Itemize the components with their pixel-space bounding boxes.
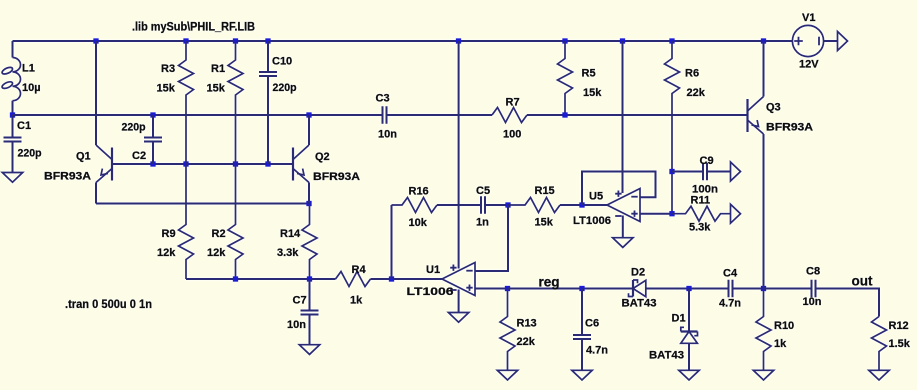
- wire D1 cathode up to reg net: [688, 289, 690, 332]
- wire Q1 collector: [95, 41, 97, 145]
- svg-text:4.7n: 4.7n: [719, 298, 741, 310]
- svg-text:U5: U5: [589, 191, 603, 203]
- wire D1 anode to ground: [688, 343, 690, 370]
- resistor R16: [392, 198, 438, 213]
- junction C2 top on y115 net: [150, 112, 155, 117]
- svg-text:Q1: Q1: [76, 151, 91, 163]
- wire U1 V+ supply from top rail: [458, 41, 460, 269]
- svg-text:out: out: [852, 274, 873, 289]
- wire emitter rail y203: [96, 203, 309, 205]
- junction R1/R2 on base rail: [233, 161, 238, 166]
- svg-text:C1: C1: [17, 120, 31, 132]
- ground under C1: [2, 173, 22, 183]
- wire U5 V- to ground: [622, 216, 624, 238]
- svg-text:V1: V1: [802, 12, 815, 24]
- wire R4 to U1 output node: [371, 278, 443, 280]
- svg-text:C4: C4: [723, 268, 738, 280]
- ground under R10: [753, 370, 773, 380]
- transistor Q2 BFR93A: [293, 145, 309, 183]
- wire y115 net R7 to Q3 base: [527, 114, 748, 116]
- capacitor C10: [259, 41, 277, 164]
- svg-text:15k: 15k: [157, 83, 176, 95]
- junction Q2 collector on y115 net: [306, 112, 311, 117]
- resistor R2: [228, 164, 243, 279]
- svg-text:R14: R14: [280, 228, 301, 240]
- wire U1 inverting input to feedback: [475, 205, 508, 271]
- svg-text:BFR93A: BFR93A: [313, 171, 360, 183]
- wire C8 to out corner: [816, 289, 880, 317]
- svg-text:R5: R5: [582, 68, 596, 80]
- resistor R14: [302, 204, 317, 280]
- resistor R1: [228, 41, 243, 164]
- capacitor C3: [383, 106, 387, 124]
- wire U1 non-inverting input: [475, 288, 508, 290]
- junction Q3 collector top rail: [761, 38, 766, 43]
- wire U5 non-inverting input: [640, 213, 672, 215]
- resistor R10: [756, 289, 771, 371]
- svg-text:reg: reg: [539, 275, 560, 290]
- resistor R7: [492, 108, 527, 123]
- resistor R15: [508, 198, 560, 213]
- wire main horizontal net y115 left of C3: [13, 114, 383, 116]
- ground under R13: [497, 370, 517, 380]
- resistor R13: [500, 289, 515, 371]
- svg-text:L1: L1: [22, 63, 35, 75]
- diode D1 BAT43: [681, 327, 698, 343]
- resistor R4: [336, 272, 371, 287]
- svg-text:LT1006: LT1006: [407, 286, 454, 298]
- svg-text:12k: 12k: [207, 247, 226, 259]
- ground under C7: [299, 345, 319, 355]
- svg-text:R15: R15: [535, 185, 555, 197]
- capacitor C6: [573, 289, 591, 340]
- resistor R11: [672, 206, 731, 221]
- ground under U5: [613, 238, 633, 248]
- svg-text:U1: U1: [426, 264, 440, 276]
- svg-text:12V: 12V: [799, 59, 819, 71]
- junction U5 V+ top rail: [620, 38, 625, 43]
- svg-text:Q3: Q3: [766, 102, 781, 114]
- svg-text:C9: C9: [700, 155, 714, 167]
- junction R5 bottom on y115 net: [562, 112, 567, 117]
- svg-text:R6: R6: [685, 68, 699, 80]
- wire C6 to ground: [581, 340, 583, 371]
- wire U5 feedback loop: [582, 172, 656, 206]
- svg-text:1n: 1n: [476, 217, 489, 229]
- svg-text:R10: R10: [774, 320, 794, 332]
- ground under C6: [572, 370, 592, 380]
- junction L1/C1/base-wire node: [10, 112, 15, 117]
- svg-text:BFR93A: BFR93A: [766, 122, 813, 134]
- junction C9 branch on R6 line: [669, 169, 674, 174]
- wire left vertical L1 top stub: [12, 41, 14, 58]
- svg-text:15k: 15k: [535, 217, 554, 229]
- port output arrow at C9: [731, 162, 741, 181]
- svg-text:D2: D2: [631, 267, 645, 279]
- wire y115 net C3 to R7: [387, 114, 493, 116]
- junction R2 bottom rail: [233, 276, 238, 281]
- svg-text:10µ: 10µ: [22, 82, 41, 94]
- junction C2 bottom on base rail: [150, 161, 155, 166]
- junction R3 top rail: [183, 38, 188, 43]
- capacitor C9: [672, 163, 731, 181]
- wire V1 to port: [824, 40, 838, 42]
- junction D1 branch on reg net: [686, 286, 691, 291]
- junction C10 top rail: [265, 38, 270, 43]
- ground under R12: [869, 370, 889, 380]
- svg-text:R3: R3: [161, 63, 175, 75]
- wire Q2 collector: [308, 115, 310, 145]
- svg-text:R13: R13: [517, 318, 537, 330]
- wire Q2 emitter down: [308, 183, 310, 204]
- port at V1 plus terminal: [838, 32, 848, 51]
- svg-text:R1: R1: [211, 63, 225, 75]
- svg-text:22k: 22k: [517, 336, 536, 348]
- junction R3/R9 on base rail: [183, 161, 188, 166]
- svg-text:3.3k: 3.3k: [277, 247, 299, 259]
- svg-text:R9: R9: [162, 228, 176, 240]
- port output arrow at R11: [731, 204, 741, 223]
- junction R14 top emitter rail: [306, 201, 311, 206]
- resistor R9: [179, 164, 194, 279]
- svg-text:C6: C6: [585, 318, 599, 330]
- wire reg net: [508, 288, 633, 290]
- ground under D1: [679, 370, 699, 380]
- junction C6 on reg net: [579, 286, 584, 291]
- junction top rail Q1 collector: [93, 38, 98, 43]
- svg-text:220p: 220p: [122, 122, 146, 134]
- svg-text:BAT43: BAT43: [622, 298, 657, 310]
- svg-text:10n: 10n: [378, 129, 397, 141]
- svg-text:C7: C7: [293, 295, 307, 307]
- svg-text:C8: C8: [806, 266, 820, 278]
- svg-text:R4: R4: [352, 264, 367, 276]
- inductor L1: [1, 58, 20, 101]
- svg-text:R7: R7: [506, 97, 520, 109]
- svg-text:D1: D1: [672, 313, 686, 325]
- ground under U1: [448, 313, 468, 323]
- capacitor C5: [437, 196, 508, 214]
- svg-text:15k: 15k: [207, 83, 226, 95]
- wire L1 bottom stub: [12, 101, 14, 115]
- capacitor C8: [764, 280, 816, 298]
- junction Q3-emitter/C4/C8/R10 node: [761, 286, 766, 291]
- svg-text:22k: 22k: [687, 87, 706, 99]
- wire U1 V- to ground: [458, 290, 460, 313]
- svg-text:220p: 220p: [273, 82, 297, 94]
- wire C7 to ground: [309, 315, 311, 345]
- svg-text:10k: 10k: [409, 217, 428, 229]
- svg-text:100: 100: [503, 129, 521, 141]
- wire R15 to U5 output: [560, 204, 607, 206]
- junction R5 top rail: [562, 38, 567, 43]
- svg-text:1k: 1k: [350, 295, 363, 307]
- junction R6/R11/U5+ node: [669, 211, 674, 216]
- junction R1 top rail: [233, 38, 238, 43]
- svg-text:220p: 220p: [18, 148, 42, 160]
- svg-text:Q2: Q2: [315, 151, 330, 163]
- resistor R6: [665, 41, 680, 214]
- capacitor C4: [729, 280, 764, 298]
- svg-text:1k: 1k: [774, 338, 787, 350]
- svg-text:12k: 12k: [157, 247, 176, 259]
- svg-text:.tran 0 500u 0 1n: .tran 0 500u 0 1n: [65, 299, 152, 311]
- svg-text:5.3k: 5.3k: [689, 222, 711, 234]
- wire Q3 emitter down to C4 node: [763, 134, 765, 289]
- op-amp U1 LT1006: [442, 263, 475, 296]
- junction reg node R13: [505, 286, 510, 291]
- svg-text:4.7n: 4.7n: [586, 345, 608, 357]
- resistor R3: [179, 41, 194, 164]
- capacitor C7: [301, 279, 319, 315]
- wire base rail y164: [112, 163, 293, 165]
- resistor R12: [872, 317, 887, 371]
- transistor Q1 BFR93A: [96, 145, 112, 183]
- wire D2 to D1 node: [646, 288, 729, 290]
- capacitor C1: [4, 115, 22, 142]
- svg-text:R11: R11: [691, 195, 711, 207]
- resistor R5: [558, 41, 573, 115]
- svg-text:R12: R12: [889, 320, 909, 332]
- svg-text:1.5k: 1.5k: [889, 338, 911, 350]
- transistor Q3 BFR93A: [748, 97, 764, 135]
- op-amp U5 LT1006: [607, 189, 640, 222]
- svg-text:10n: 10n: [287, 319, 306, 331]
- svg-text:C10: C10: [272, 56, 292, 68]
- svg-text:C5: C5: [476, 185, 490, 197]
- junction R14/C7 bottom rail: [307, 276, 312, 281]
- svg-text:BFR93A: BFR93A: [44, 171, 91, 183]
- capacitor C2: [144, 115, 162, 164]
- wire R16 branch vertical: [391, 205, 393, 279]
- junction R6 top rail: [669, 38, 674, 43]
- junction U1 V+ top rail: [456, 38, 461, 43]
- svg-text:10n: 10n: [803, 296, 822, 308]
- svg-text:C2: C2: [132, 150, 146, 162]
- svg-text:C3: C3: [376, 93, 390, 105]
- svg-text:.lib mySub\PHIL_RF.LIB: .lib mySub\PHIL_RF.LIB: [132, 22, 255, 34]
- junction C10 bottom on base rail: [265, 161, 270, 166]
- wire C1 to ground: [12, 142, 14, 173]
- wire top +12V rail: [13, 40, 793, 42]
- wire bottom rail y279 left: [186, 278, 336, 280]
- svg-text:R16: R16: [409, 186, 429, 198]
- voltage source V1: [792, 25, 823, 56]
- svg-text:LT1006: LT1006: [573, 215, 611, 227]
- wire U5 V+ supply from top rail: [622, 41, 624, 193]
- wire Q1 emitter down: [95, 183, 97, 204]
- junction U5 output node: [579, 202, 584, 207]
- junction R4/R16/U1-out node: [389, 276, 394, 281]
- junction C5/R15/U1-feedback node: [505, 202, 510, 207]
- svg-text:BAT43: BAT43: [649, 350, 684, 362]
- svg-text:15k: 15k: [583, 87, 602, 99]
- diode D2 BAT43: [629, 280, 646, 297]
- wire Q3 collector: [763, 41, 765, 97]
- svg-text:R2: R2: [212, 228, 226, 240]
